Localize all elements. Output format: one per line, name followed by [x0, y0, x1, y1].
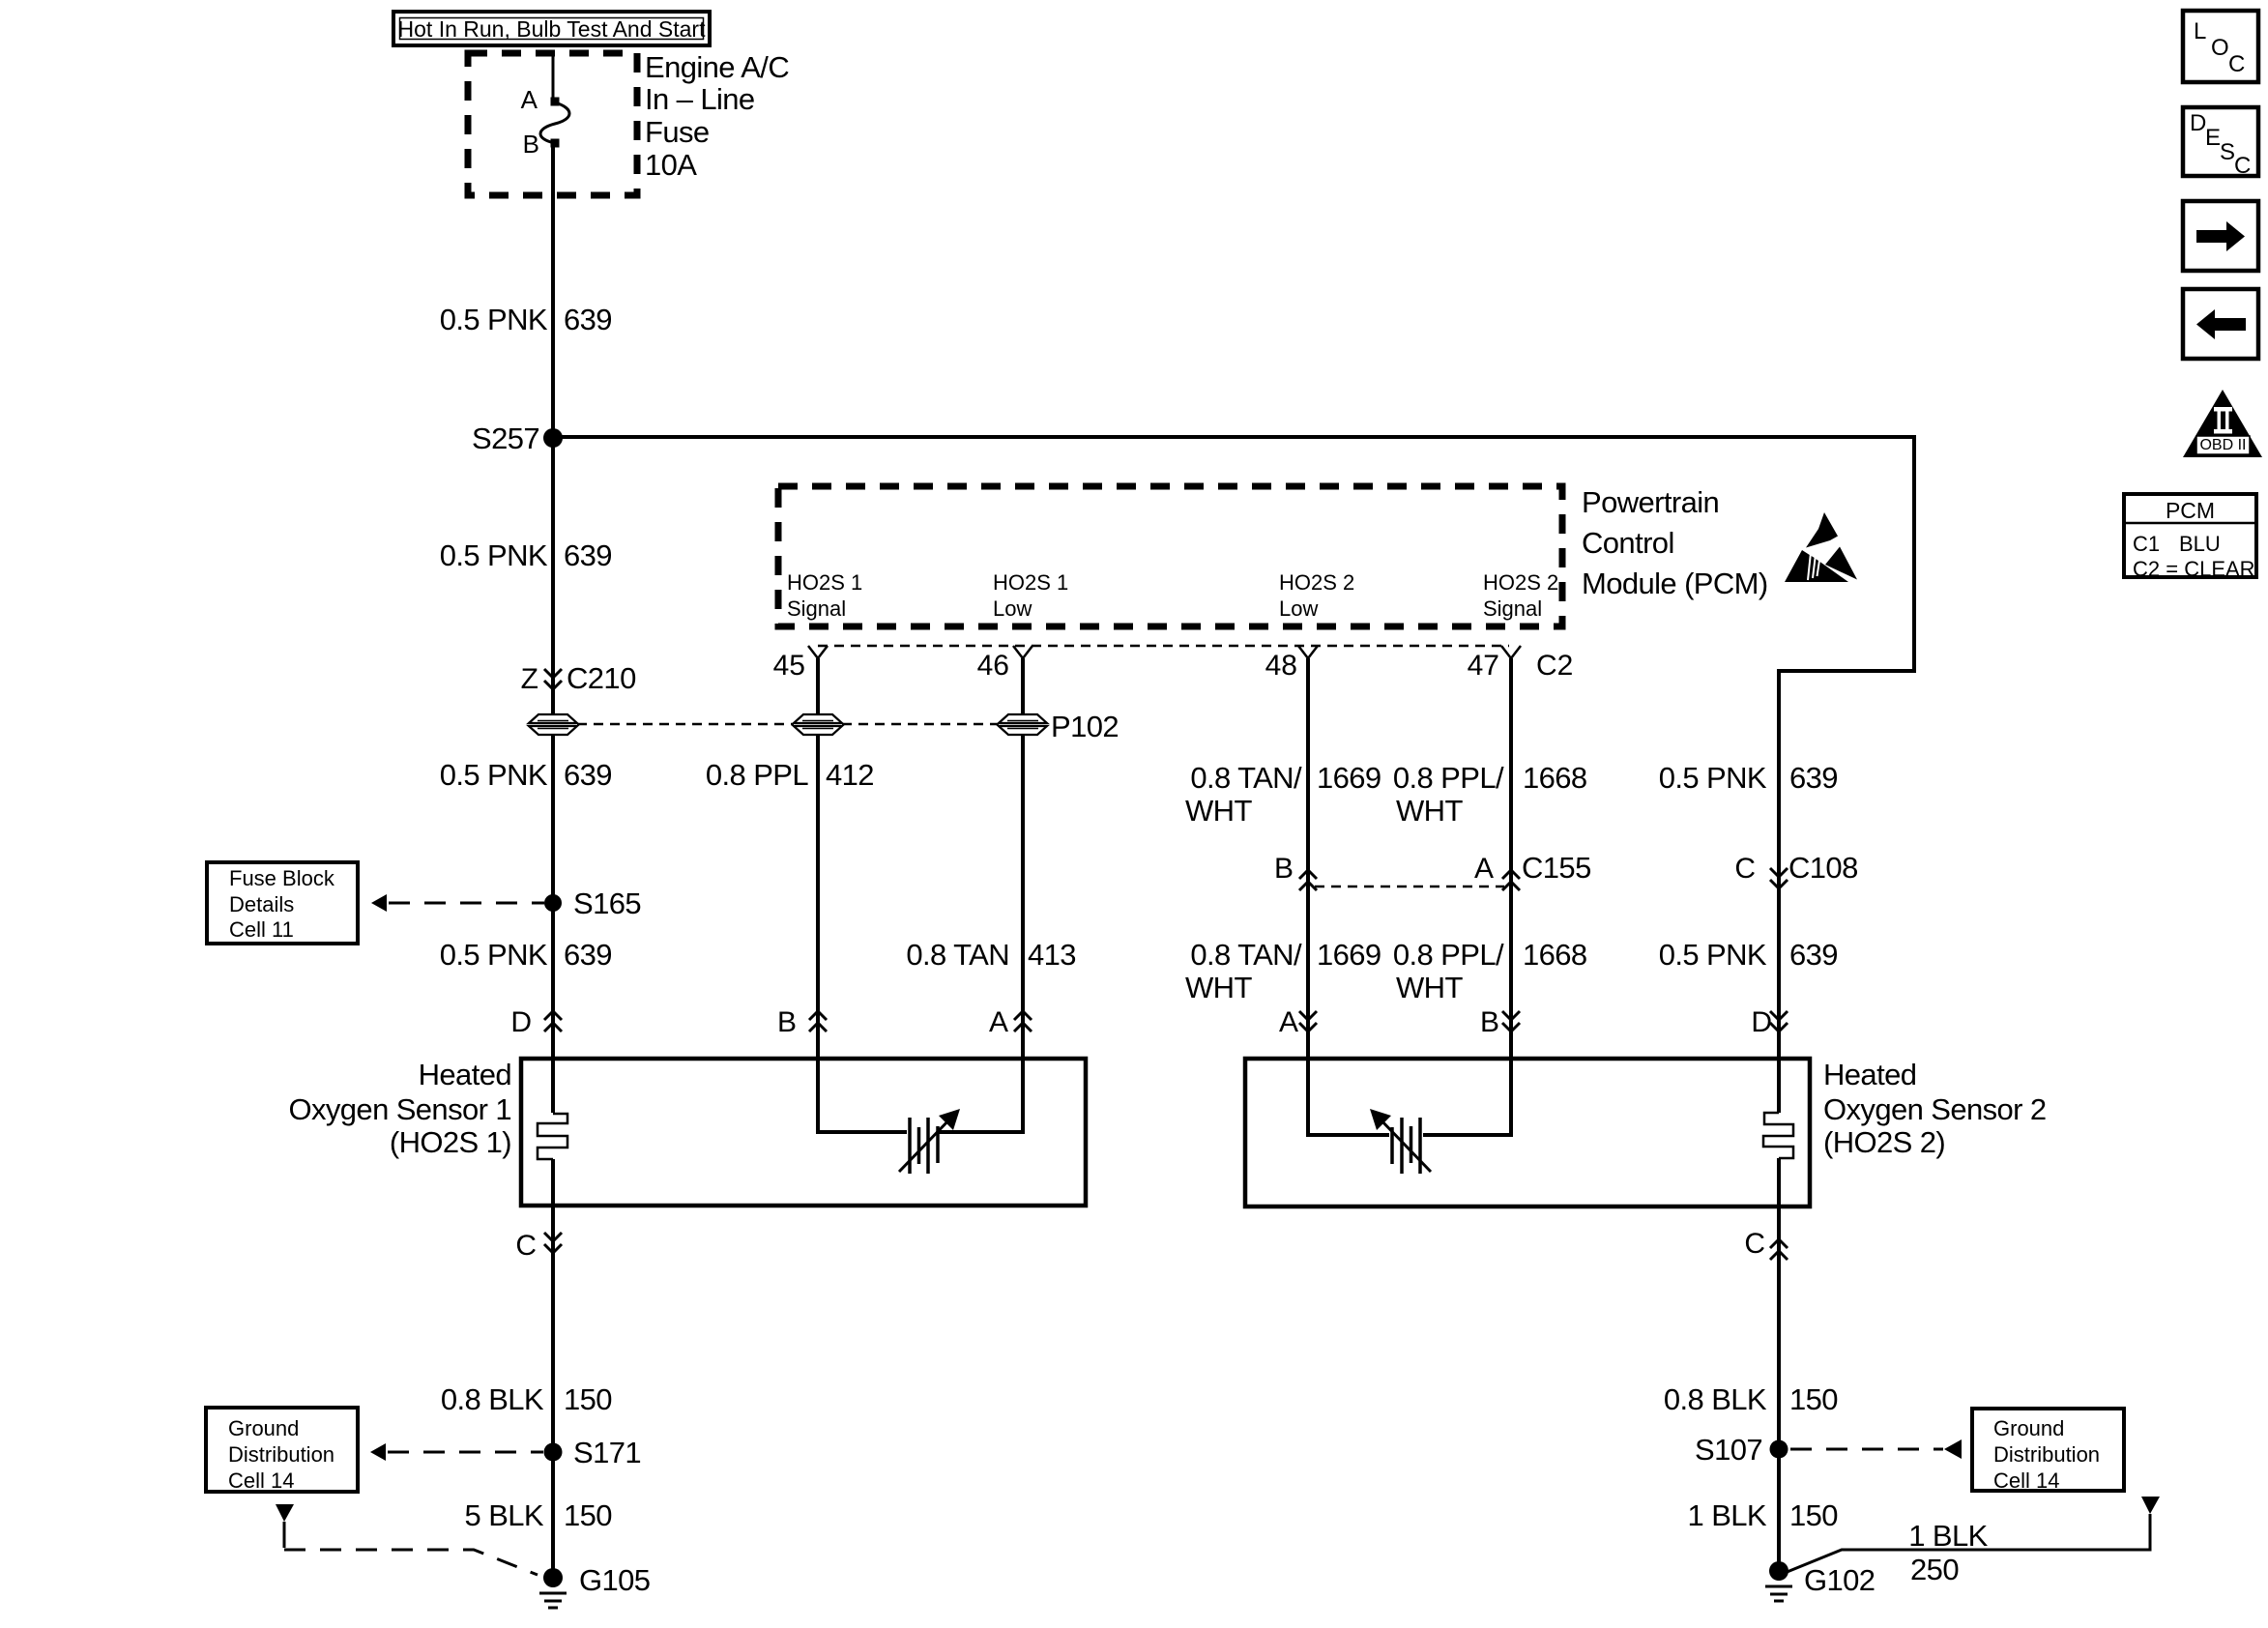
svg-text:(HO2S 2): (HO2S 2)	[1823, 1125, 1945, 1159]
svg-text:A: A	[989, 1006, 1008, 1038]
svg-text:WHT: WHT	[1185, 794, 1252, 828]
svg-text:Z: Z	[521, 663, 538, 695]
svg-text:S107: S107	[1695, 1433, 1762, 1467]
svg-text:C: C	[2234, 153, 2251, 179]
svg-text:Cell 11: Cell 11	[229, 917, 294, 942]
svg-text:L: L	[2194, 18, 2206, 44]
svg-text:639: 639	[1789, 938, 1838, 972]
svg-text:E: E	[2205, 125, 2221, 151]
svg-text:412: 412	[826, 758, 874, 792]
svg-text:Heated: Heated	[1823, 1058, 1916, 1091]
svg-text:Module (PCM): Module (PCM)	[1582, 567, 1768, 600]
svg-text:250: 250	[1910, 1553, 1959, 1586]
svg-text:(HO2S 1): (HO2S 1)	[390, 1125, 511, 1159]
svg-text:48: 48	[1265, 650, 1297, 682]
svg-text:HO2S 2: HO2S 2	[1279, 570, 1354, 595]
svg-text:10A: 10A	[645, 148, 697, 182]
svg-text:C155: C155	[1522, 851, 1591, 885]
svg-text:150: 150	[1789, 1382, 1838, 1416]
svg-text:Ground: Ground	[1993, 1416, 2064, 1440]
svg-text:D: D	[2190, 110, 2206, 136]
svg-text:C108: C108	[1788, 851, 1858, 885]
svg-text:C: C	[515, 1230, 537, 1262]
svg-text:413: 413	[1028, 938, 1076, 972]
svg-text:1668: 1668	[1523, 938, 1587, 972]
svg-text:1 BLK: 1 BLK	[1908, 1519, 1988, 1553]
svg-text:46: 46	[977, 650, 1009, 682]
svg-text:Signal: Signal	[1483, 596, 1542, 621]
svg-text:HO2S 1: HO2S 1	[787, 570, 862, 595]
svg-text:45: 45	[773, 650, 805, 682]
svg-text:C: C	[1734, 853, 1756, 885]
svg-text:G102: G102	[1804, 1563, 1875, 1597]
svg-text:A: A	[1474, 853, 1494, 885]
svg-text:C210: C210	[567, 661, 636, 695]
svg-text:0.8 TAN/: 0.8 TAN/	[1190, 938, 1302, 972]
svg-text:Low: Low	[1279, 596, 1318, 621]
svg-text:D: D	[1751, 1006, 1772, 1038]
svg-text:0.5 PNK: 0.5 PNK	[1659, 938, 1767, 972]
svg-text:S: S	[2220, 139, 2235, 165]
svg-text:S165: S165	[573, 887, 641, 920]
svg-text:0.8 TAN: 0.8 TAN	[906, 938, 1009, 972]
svg-text:B: B	[1480, 1006, 1499, 1038]
svg-text:Signal: Signal	[787, 596, 846, 621]
svg-text:Heated: Heated	[419, 1058, 511, 1091]
svg-text:G105: G105	[579, 1563, 650, 1597]
svg-text:BLU: BLU	[2179, 532, 2221, 556]
svg-text:C1: C1	[2133, 532, 2160, 556]
svg-text:Distribution: Distribution	[1993, 1442, 2100, 1467]
svg-text:Fuse: Fuse	[645, 115, 710, 149]
svg-text:Low: Low	[993, 596, 1032, 621]
svg-text:0.5 PNK: 0.5 PNK	[440, 303, 548, 336]
svg-text:0.8 BLK: 0.8 BLK	[1664, 1382, 1767, 1416]
svg-text:150: 150	[564, 1382, 612, 1416]
svg-text:C: C	[2228, 51, 2245, 77]
svg-text:Hot In Run, Bulb Test And Star: Hot In Run, Bulb Test And Start	[398, 16, 707, 42]
svg-text:0.5 PNK: 0.5 PNK	[440, 938, 548, 972]
svg-text:P102: P102	[1051, 710, 1119, 743]
svg-text:Ground: Ground	[228, 1416, 299, 1440]
svg-text:Distribution: Distribution	[228, 1442, 334, 1467]
svg-text:Cell 14: Cell 14	[228, 1468, 294, 1493]
svg-text:Engine A/C: Engine A/C	[645, 50, 789, 84]
svg-text:B: B	[523, 130, 539, 159]
svg-text:Control: Control	[1582, 526, 1674, 560]
svg-text:1668: 1668	[1523, 761, 1587, 795]
svg-text:C2 = CLEAR: C2 = CLEAR	[2133, 557, 2255, 581]
svg-text:A: A	[1279, 1006, 1298, 1038]
svg-text:0.8 PPL/: 0.8 PPL/	[1393, 761, 1504, 795]
svg-text:0.5 PNK: 0.5 PNK	[440, 758, 548, 792]
svg-text:0.8 TAN/: 0.8 TAN/	[1190, 761, 1302, 795]
svg-text:1 BLK: 1 BLK	[1688, 1498, 1767, 1532]
svg-text:OBD II: OBD II	[2199, 437, 2246, 453]
svg-text:S257: S257	[472, 422, 539, 455]
svg-text:639: 639	[564, 758, 612, 792]
svg-text:639: 639	[564, 938, 612, 972]
svg-text:WHT: WHT	[1185, 971, 1252, 1004]
svg-text:B: B	[1274, 853, 1294, 885]
svg-text:5 BLK: 5 BLK	[465, 1498, 544, 1532]
svg-text:0.8 BLK: 0.8 BLK	[441, 1382, 544, 1416]
svg-text:A: A	[521, 85, 538, 114]
svg-text:639: 639	[564, 303, 612, 336]
svg-text:S171: S171	[573, 1436, 641, 1469]
svg-text:639: 639	[1789, 761, 1838, 795]
svg-text:O: O	[2211, 35, 2229, 61]
svg-text:0.8 PPL: 0.8 PPL	[706, 758, 808, 792]
svg-text:Fuse Block: Fuse Block	[229, 866, 335, 890]
svg-text:C: C	[1744, 1228, 1765, 1260]
svg-text:C2: C2	[1536, 650, 1573, 682]
svg-text:0.8 PPL/: 0.8 PPL/	[1393, 938, 1504, 972]
svg-text:639: 639	[564, 538, 612, 572]
svg-text:Cell 14: Cell 14	[1993, 1468, 2059, 1493]
svg-text:150: 150	[1789, 1498, 1838, 1532]
svg-text:PCM: PCM	[2166, 498, 2215, 523]
svg-text:1669: 1669	[1317, 761, 1381, 795]
svg-text:WHT: WHT	[1396, 971, 1463, 1004]
svg-text:In – Line: In – Line	[645, 82, 755, 116]
svg-text:47: 47	[1468, 650, 1499, 682]
svg-text:HO2S 2: HO2S 2	[1483, 570, 1558, 595]
svg-text:HO2S 1: HO2S 1	[993, 570, 1068, 595]
svg-text:150: 150	[564, 1498, 612, 1532]
svg-text:0.5 PNK: 0.5 PNK	[440, 538, 548, 572]
svg-text:B: B	[777, 1006, 797, 1038]
svg-text:D: D	[510, 1006, 532, 1038]
svg-text:0.5 PNK: 0.5 PNK	[1659, 761, 1767, 795]
svg-text:Powertrain: Powertrain	[1582, 485, 1719, 519]
svg-text:Oxygen Sensor 2: Oxygen Sensor 2	[1823, 1092, 2047, 1126]
svg-text:Details: Details	[229, 892, 294, 916]
svg-text:Oxygen Sensor 1: Oxygen Sensor 1	[288, 1092, 511, 1126]
svg-text:1669: 1669	[1317, 938, 1381, 972]
svg-text:WHT: WHT	[1396, 794, 1463, 828]
